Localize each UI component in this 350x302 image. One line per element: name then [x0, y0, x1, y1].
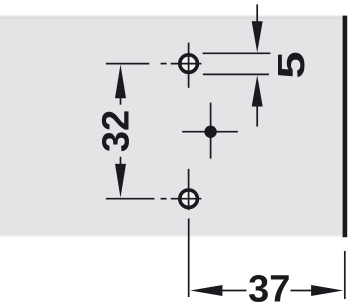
panel bottom soft edge	[0, 235, 343, 239]
svg-text:5: 5	[270, 51, 312, 78]
dimension line 5 lower segment	[256, 106, 258, 127]
arrow up (32)	[115, 64, 126, 98]
hole bottom crosshair vertical	[188, 169, 190, 210]
panel top soft edge	[0, 15, 343, 21]
dimension line 5 upper segment	[256, 4, 258, 21]
panel (wood cross-section)	[0, 16, 343, 237]
hole top crosshair horizontal	[171, 63, 202, 65]
extension line 37 left	[188, 219, 190, 298]
dimension line 32 upper segment	[120, 98, 122, 105]
slot upper line	[203, 52, 271, 54]
arrow up (5)	[252, 75, 263, 106]
center mark crosshair vertical	[210, 103, 212, 159]
arrow left (37)	[190, 285, 222, 296]
dimension extension line (32, top)	[106, 63, 149, 65]
hole bottom centerline dash	[161, 198, 167, 200]
panel edge line	[343, 16, 348, 238]
extension line 37 right	[344, 251, 346, 299]
hole top inner cross	[180, 55, 198, 73]
arrow down (5)	[252, 21, 263, 52]
dimension line 37 left segment	[222, 290, 247, 292]
arrow right (37)	[311, 285, 343, 296]
hole bottom inner cross	[180, 190, 198, 208]
svg-text:32: 32	[96, 110, 138, 152]
hole top circle	[180, 55, 198, 73]
slot lower line	[203, 73, 269, 75]
center mark crosshair horizontal	[182, 131, 238, 133]
hole top crosshair vertical	[188, 43, 190, 88]
dimension line 32 lower segment	[120, 157, 122, 165]
svg-text:37: 37	[248, 268, 290, 302]
hole bottom crosshair horizontal	[171, 198, 202, 200]
dimension extension line (32, bottom)	[106, 198, 155, 200]
hole top centerline dash	[161, 63, 167, 65]
arrow down (32)	[115, 164, 126, 198]
hole bottom circle	[180, 190, 198, 208]
dimension line 37 right segment	[291, 290, 312, 292]
center mark dot	[204, 126, 216, 138]
